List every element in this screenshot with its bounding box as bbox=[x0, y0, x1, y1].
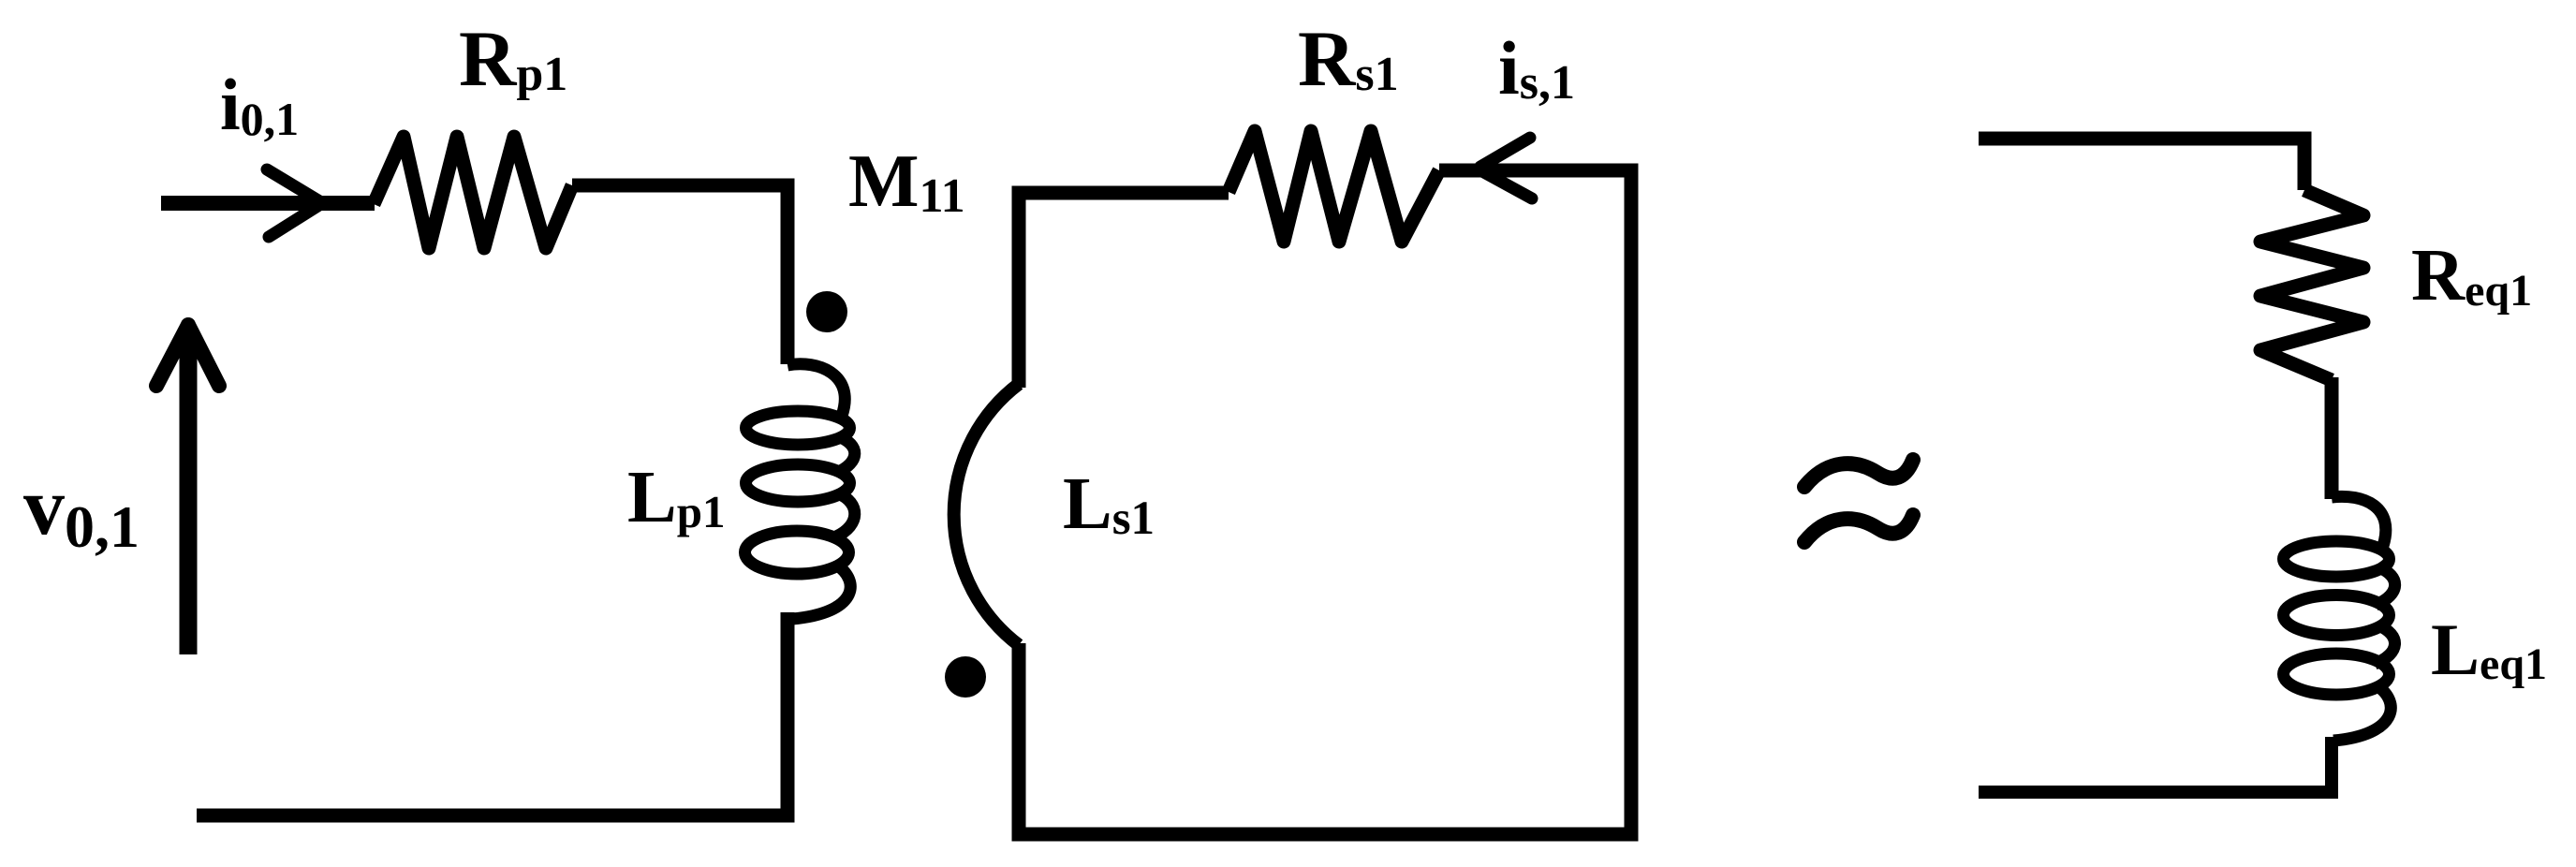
wire primary right lower + bottom bbox=[197, 612, 788, 816]
voltage arrow v0,1 bbox=[180, 330, 198, 654]
wire secondary top-left bbox=[1019, 193, 1229, 388]
wire between Req1 and Leq1 bbox=[2325, 377, 2339, 499]
wire primary top-right + right vertical bbox=[572, 185, 788, 364]
wire primary input bbox=[161, 196, 375, 211]
resistor Rs1 bbox=[1229, 131, 1439, 242]
wire equivalent top bbox=[1979, 139, 2304, 190]
inductor Ls1 arc bbox=[954, 384, 1019, 645]
inductor Leq1 coil bbox=[2284, 496, 2395, 741]
resistor Req1 bbox=[2260, 190, 2363, 380]
inductor Lp1 coil bbox=[745, 364, 855, 619]
resistor Rp1 bbox=[374, 137, 572, 248]
node dot secondary winding bbox=[945, 656, 986, 698]
wire equivalent bottom bbox=[1979, 737, 2332, 792]
wire secondary right + bottom bbox=[1019, 170, 1631, 834]
current arrow i0,1 head bbox=[267, 169, 321, 237]
node dot primary winding bbox=[806, 291, 847, 332]
approx equal symbol bbox=[1804, 460, 1913, 542]
current arrow is,1 head bbox=[1480, 138, 1532, 198]
